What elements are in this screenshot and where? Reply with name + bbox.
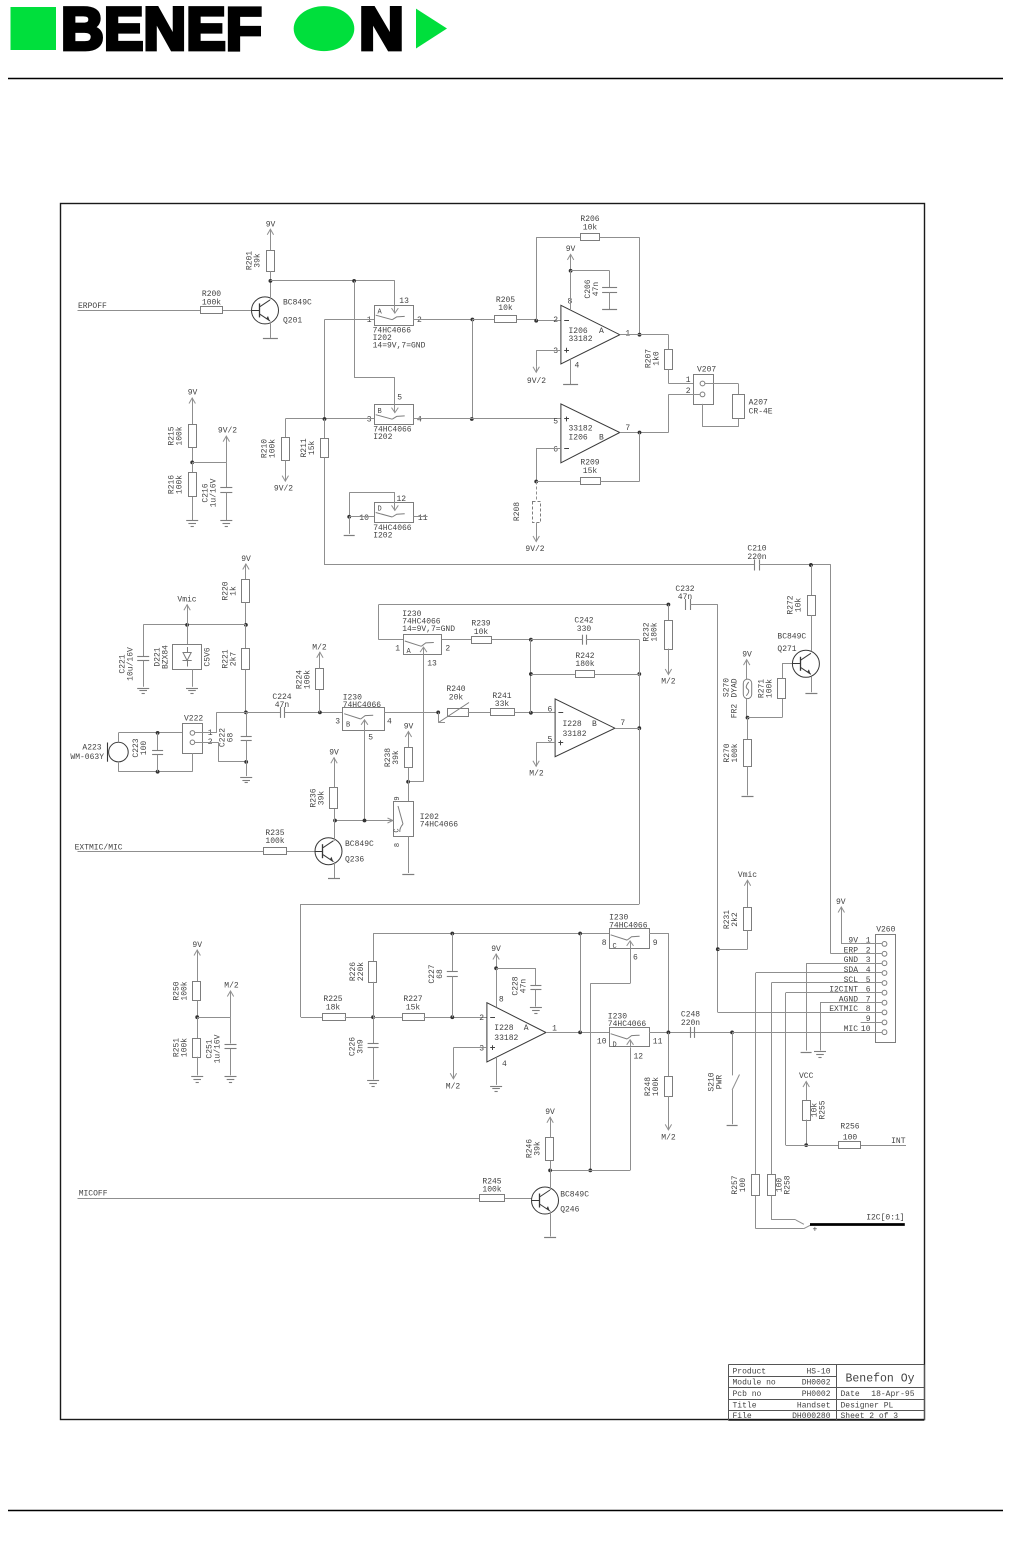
svg-text:33182: 33182 — [569, 335, 593, 344]
svg-text:SDA: SDA — [844, 966, 859, 975]
svg-text:33182: 33182 — [494, 1034, 518, 1043]
svg-text:330: 330 — [577, 625, 592, 634]
svg-text:V207: V207 — [697, 365, 716, 374]
svg-text:2: 2 — [479, 1014, 484, 1023]
svg-text:3: 3 — [367, 415, 372, 424]
svg-text:M/2: M/2 — [529, 769, 544, 778]
svg-text:Designer PL: Designer PL — [841, 1402, 894, 1411]
svg-text:33182: 33182 — [563, 730, 587, 739]
svg-text:10k: 10k — [474, 628, 489, 637]
svg-text:A: A — [599, 327, 604, 336]
svg-text:I202: I202 — [373, 532, 392, 541]
svg-text:68: 68 — [436, 969, 445, 979]
svg-text:9V/2: 9V/2 — [218, 427, 237, 436]
svg-text:M/2: M/2 — [661, 677, 676, 686]
svg-text:FR2: FR2 — [731, 704, 740, 719]
svg-text:5: 5 — [397, 393, 402, 402]
svg-text:100: 100 — [739, 1178, 748, 1193]
svg-text:2k2: 2k2 — [731, 912, 740, 927]
svg-text:1k: 1k — [230, 586, 239, 596]
svg-text:B: B — [592, 720, 597, 729]
svg-text:9: 9 — [653, 939, 658, 948]
svg-text:R208: R208 — [513, 502, 522, 521]
svg-text:BC849C: BC849C — [560, 1190, 589, 1199]
svg-text:9V: 9V — [742, 650, 752, 659]
svg-text:10: 10 — [359, 514, 369, 523]
svg-text:B: B — [599, 433, 604, 442]
svg-text:100k: 100k — [265, 837, 284, 846]
svg-text:ERP: ERP — [844, 947, 859, 956]
svg-text:10k: 10k — [795, 598, 804, 613]
svg-text:2: 2 — [553, 316, 558, 325]
svg-text:D: D — [378, 506, 382, 514]
svg-text:39k: 39k — [254, 253, 263, 268]
svg-text:9V/2: 9V/2 — [527, 377, 546, 386]
svg-text:I228: I228 — [563, 720, 582, 729]
svg-text:74HC4066: 74HC4066 — [609, 921, 648, 930]
svg-text:8: 8 — [602, 939, 607, 948]
svg-text:15k: 15k — [406, 1003, 421, 1012]
svg-text:8: 8 — [499, 996, 504, 1005]
svg-text:20k: 20k — [449, 693, 464, 702]
svg-text:EXTMIC/MIC: EXTMIC/MIC — [75, 843, 123, 852]
svg-text:10u/16V: 10u/16V — [127, 647, 136, 681]
svg-text:6: 6 — [866, 986, 871, 995]
svg-text:12: 12 — [634, 1052, 644, 1061]
svg-text:13: 13 — [427, 660, 437, 669]
svg-text:74HC4066: 74HC4066 — [343, 701, 382, 710]
svg-text:47n: 47n — [678, 593, 693, 602]
svg-text:11: 11 — [418, 514, 428, 523]
svg-text:M/2: M/2 — [661, 1133, 676, 1142]
svg-text:7: 7 — [625, 424, 630, 433]
svg-text:DYAD: DYAD — [731, 678, 740, 697]
svg-text:9V/2: 9V/2 — [525, 545, 544, 554]
svg-text:1k0: 1k0 — [653, 351, 662, 366]
svg-text:68: 68 — [227, 733, 236, 743]
svg-text:DH0002: DH0002 — [802, 1379, 831, 1388]
svg-text:I2CINT: I2CINT — [829, 986, 858, 995]
svg-text:R258: R258 — [784, 1175, 793, 1194]
svg-text:9V: 9V — [266, 220, 276, 229]
svg-text:5: 5 — [547, 736, 552, 745]
svg-text:220n: 220n — [747, 553, 766, 562]
svg-text:1: 1 — [686, 376, 691, 385]
svg-text:I2C[0:1]: I2C[0:1] — [866, 1213, 904, 1222]
svg-text:BENEF: BENEF — [61, 0, 262, 63]
svg-text:9V: 9V — [545, 1108, 555, 1117]
svg-text:4: 4 — [866, 966, 871, 975]
svg-text:C5V6: C5V6 — [204, 647, 213, 666]
svg-text:2: 2 — [866, 947, 871, 956]
svg-text:A223: A223 — [82, 743, 101, 752]
svg-text:BC849C: BC849C — [345, 840, 374, 849]
svg-text:9V: 9V — [329, 749, 339, 758]
svg-text:M/2: M/2 — [446, 1082, 461, 1091]
svg-text:Title: Title — [733, 1402, 757, 1411]
svg-text:12: 12 — [397, 495, 407, 504]
svg-text:100k: 100k — [482, 1186, 501, 1195]
svg-text:180k: 180k — [575, 660, 594, 669]
svg-text:Pcb no: Pcb no — [733, 1390, 762, 1399]
svg-text:100k: 100k — [181, 1038, 190, 1057]
svg-text:14=9V,7=GND: 14=9V,7=GND — [373, 342, 426, 351]
svg-text:File: File — [733, 1412, 752, 1421]
svg-text:4: 4 — [502, 1060, 507, 1069]
svg-text:18-Apr-95: 18-Apr-95 — [871, 1390, 914, 1399]
svg-text:VCC: VCC — [799, 1072, 814, 1081]
svg-text:39k: 39k — [392, 750, 401, 765]
svg-text:MICOFF: MICOFF — [79, 1190, 108, 1199]
svg-text:A207: A207 — [749, 399, 768, 408]
svg-text:PWR: PWR — [716, 1075, 725, 1090]
svg-text:6: 6 — [553, 446, 558, 455]
svg-text:5: 5 — [866, 976, 871, 985]
svg-text:7: 7 — [620, 719, 625, 728]
svg-text:3: 3 — [553, 347, 558, 356]
svg-text:R256: R256 — [840, 1122, 859, 1131]
svg-text:100: 100 — [843, 1134, 858, 1143]
svg-text:220n: 220n — [681, 1019, 700, 1028]
svg-text:INT: INT — [891, 1137, 906, 1146]
svg-text:2: 2 — [445, 644, 450, 653]
svg-text:+: + — [813, 1226, 818, 1235]
svg-text:SCL: SCL — [844, 976, 859, 985]
svg-text:7: 7 — [866, 996, 871, 1005]
svg-text:I228: I228 — [494, 1024, 513, 1033]
svg-text:47n: 47n — [520, 979, 529, 994]
svg-text:Handset: Handset — [797, 1402, 831, 1411]
svg-text:10: 10 — [597, 1037, 607, 1046]
svg-text:6: 6 — [633, 954, 638, 963]
svg-text:Benefon Oy: Benefon Oy — [845, 1373, 914, 1386]
svg-text:4: 4 — [417, 415, 422, 424]
svg-text:1u/16V: 1u/16V — [210, 478, 219, 507]
svg-text:6: 6 — [547, 706, 552, 715]
svg-text:39k: 39k — [534, 1141, 543, 1156]
svg-text:47n: 47n — [275, 701, 290, 710]
svg-text:B: B — [346, 722, 350, 730]
svg-text:Date: Date — [841, 1390, 860, 1399]
svg-text:15k: 15k — [308, 441, 317, 456]
svg-text:Q236: Q236 — [345, 855, 364, 864]
svg-text:10k: 10k — [498, 304, 513, 313]
svg-text:14=9V,7=GND: 14=9V,7=GND — [402, 625, 455, 634]
svg-text:C: C — [613, 943, 617, 951]
svg-text:BC849C: BC849C — [777, 632, 806, 641]
svg-text:5: 5 — [553, 417, 558, 426]
svg-text:9V: 9V — [241, 555, 251, 564]
svg-text:Q201: Q201 — [283, 317, 302, 326]
svg-text:100k: 100k — [269, 439, 278, 458]
svg-text:Product: Product — [733, 1367, 767, 1376]
svg-text:4: 4 — [575, 362, 580, 371]
svg-text:9V: 9V — [491, 945, 501, 954]
svg-text:8: 8 — [394, 843, 402, 847]
svg-text:1u/16V: 1u/16V — [214, 1034, 223, 1063]
svg-text:Vmic: Vmic — [177, 596, 196, 605]
svg-text:A: A — [524, 1024, 529, 1033]
svg-text:74HC4066: 74HC4066 — [420, 821, 459, 830]
svg-text:9: 9 — [394, 796, 402, 800]
svg-text:100k: 100k — [176, 475, 185, 494]
svg-text:15k: 15k — [583, 467, 598, 476]
svg-text:4: 4 — [387, 718, 392, 727]
svg-text:9V: 9V — [848, 937, 858, 946]
svg-text:5: 5 — [368, 733, 373, 742]
svg-text:33182: 33182 — [569, 425, 593, 434]
svg-text:MIC: MIC — [844, 1025, 859, 1034]
svg-text:BC849C: BC849C — [283, 299, 312, 308]
svg-text:100k: 100k — [652, 1077, 661, 1096]
svg-text:M/2: M/2 — [224, 982, 239, 991]
svg-text:9V: 9V — [836, 898, 846, 907]
svg-text:1: 1 — [866, 937, 871, 946]
svg-text:9V: 9V — [188, 389, 198, 398]
svg-text:V222: V222 — [184, 715, 203, 724]
svg-text:9V: 9V — [192, 941, 202, 950]
svg-text:Sheet 2 of 3: Sheet 2 of 3 — [841, 1412, 899, 1421]
svg-text:Q271: Q271 — [777, 645, 796, 654]
svg-text:PH0002: PH0002 — [802, 1390, 831, 1399]
svg-text:100k: 100k — [731, 743, 740, 762]
svg-text:220k: 220k — [357, 962, 366, 981]
svg-text:C: C — [394, 828, 402, 832]
svg-text:N: N — [359, 0, 404, 63]
svg-text:9V: 9V — [404, 723, 414, 732]
svg-text:R255: R255 — [819, 1100, 828, 1119]
svg-text:180k: 180k — [651, 622, 660, 641]
svg-text:3: 3 — [335, 718, 340, 727]
svg-text:D: D — [613, 1041, 617, 1049]
svg-text:10k: 10k — [583, 223, 598, 232]
svg-text:74HC4066: 74HC4066 — [608, 1020, 647, 1029]
svg-text:100k: 100k — [304, 670, 313, 689]
svg-text:ERPOFF: ERPOFF — [78, 302, 107, 311]
svg-text:39k: 39k — [318, 791, 327, 806]
svg-text:BZX84: BZX84 — [162, 645, 171, 669]
svg-text:100: 100 — [140, 741, 149, 756]
svg-text:B: B — [378, 408, 382, 416]
svg-text:3: 3 — [479, 1044, 484, 1053]
svg-text:3n9: 3n9 — [357, 1039, 366, 1054]
svg-text:WM-063Y: WM-063Y — [70, 753, 104, 762]
svg-text:Q246: Q246 — [560, 1206, 579, 1215]
svg-text:100k: 100k — [202, 298, 221, 307]
svg-text:I202: I202 — [373, 433, 392, 442]
svg-text:100k: 100k — [181, 981, 190, 1000]
svg-text:DH000280: DH000280 — [792, 1412, 831, 1421]
svg-text:9V/2: 9V/2 — [274, 484, 293, 493]
svg-text:100k: 100k — [766, 679, 775, 698]
svg-text:33k: 33k — [495, 700, 510, 709]
svg-text:CR-4E: CR-4E — [749, 408, 773, 417]
svg-text:V260: V260 — [876, 925, 895, 934]
svg-text:1: 1 — [395, 644, 400, 653]
svg-text:2k7: 2k7 — [230, 652, 239, 667]
svg-text:2: 2 — [417, 316, 422, 325]
svg-text:1: 1 — [367, 316, 372, 325]
svg-text:13: 13 — [399, 297, 409, 306]
svg-text:M/2: M/2 — [312, 644, 327, 653]
svg-text:Module no: Module no — [733, 1379, 776, 1388]
svg-text:Vmic: Vmic — [738, 871, 757, 880]
svg-text:11: 11 — [653, 1037, 663, 1046]
svg-text:HS-10: HS-10 — [806, 1367, 830, 1376]
svg-text:47n: 47n — [592, 282, 601, 297]
svg-text:9V: 9V — [566, 245, 576, 254]
svg-text:AGND: AGND — [839, 996, 858, 1005]
svg-text:I206: I206 — [569, 433, 588, 442]
svg-text:18k: 18k — [326, 1003, 341, 1012]
svg-text:100k: 100k — [176, 426, 185, 445]
svg-text:1: 1 — [208, 729, 213, 738]
